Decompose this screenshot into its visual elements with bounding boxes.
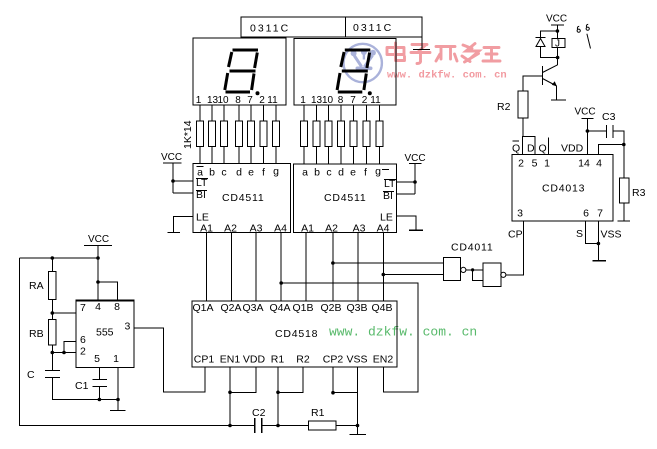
- coupling wires U5A to U5B: [466, 270, 483, 280]
- VCC rail wire to RA: [20, 257, 98, 259]
- svg-text:Q3A: Q3A: [242, 302, 263, 314]
- timer U1 555: [76, 300, 134, 368]
- wire collector node: [557, 58, 559, 66]
- junction: [471, 268, 474, 271]
- svg-text:1: 1: [544, 158, 550, 170]
- svg-text:R1: R1: [271, 354, 285, 366]
- svg-text:R2: R2: [497, 101, 511, 113]
- wire RA to RB: [51, 300, 53, 320]
- svg-text:f: f: [262, 167, 265, 179]
- svg-text:7: 7: [247, 95, 253, 106]
- ground below pin1: [110, 400, 126, 411]
- svg-text:CD4511: CD4511: [324, 192, 367, 204]
- junction: [556, 56, 560, 60]
- capacitor C3: [602, 111, 616, 138]
- wire C3 to pin4 node: [613, 131, 624, 145]
- watermark green url text: [329, 325, 477, 340]
- VCC symbol above CD4013: [575, 107, 596, 155]
- svg-text:3: 3: [125, 321, 131, 333]
- 555 pin 8 loop wire: [98, 282, 117, 300]
- svg-text:e: e: [350, 167, 356, 179]
- junction pin2: [51, 351, 55, 355]
- svg-text:C3: C3: [602, 111, 616, 123]
- junction pin6/pin2: [62, 351, 66, 355]
- 7-segment display DS1: [193, 38, 286, 106]
- resistor R1: [309, 407, 337, 430]
- 555 pin 6 jog wire: [64, 342, 76, 353]
- digit 8 of DS1: [225, 50, 260, 95]
- svg-text:8: 8: [114, 301, 120, 313]
- junction pin8/pin4: [96, 280, 100, 284]
- svg-text:6: 6: [583, 208, 589, 220]
- svg-text:S: S: [576, 228, 583, 240]
- svg-text:e: e: [248, 167, 254, 179]
- svg-text:1K*14: 1K*14: [182, 120, 194, 149]
- wire to C3: [587, 130, 606, 132]
- junction: [597, 242, 601, 246]
- wire VCC to LT pin of U3: [397, 181, 416, 183]
- pin2/pin5 tie bracket (Qbar to D): [522, 136, 535, 154]
- svg-text:VCC: VCC: [88, 234, 109, 245]
- relay coil J: [552, 39, 565, 58]
- wire U3.A3 to U4.Q3B: [357, 233, 359, 302]
- wire LE of U3 to ground: [397, 216, 417, 230]
- relay contact switch: [577, 24, 590, 48]
- svg-text:Q: Q: [512, 143, 520, 155]
- R3 ground bar: [618, 220, 631, 222]
- svg-text:5: 5: [532, 158, 538, 170]
- wire R1 node to reset rail: [277, 392, 279, 425]
- wire to 555 pin 7: [52, 312, 76, 314]
- wire LE of U2 to ground: [174, 217, 194, 233]
- svg-text:b: b: [314, 167, 320, 179]
- svg-text:8: 8: [235, 95, 241, 106]
- counter U4 CD4518: [192, 301, 397, 367]
- transistor Q1: [543, 65, 558, 86]
- R1-R2 tie bracket: [278, 367, 303, 392]
- svg-text:EN1: EN1: [220, 354, 241, 366]
- resistor network RN1 (1K*14): [196, 121, 279, 147]
- svg-text:5: 5: [94, 353, 100, 365]
- svg-text:2: 2: [259, 95, 265, 106]
- capacitor C2: [252, 407, 266, 433]
- svg-text:Q3B: Q3B: [346, 302, 367, 314]
- wire R1 to ground node: [336, 425, 358, 427]
- svg-text:d: d: [236, 167, 242, 179]
- resistor RB: [29, 320, 56, 346]
- svg-text:10: 10: [322, 95, 334, 106]
- svg-text:A1: A1: [301, 223, 314, 235]
- svg-text:1: 1: [300, 95, 306, 106]
- svg-text:Q4B: Q4B: [371, 302, 392, 314]
- connector box 0311C (common-anode header for both displays): [241, 17, 422, 37]
- svg-text:Q2B: Q2B: [320, 302, 341, 314]
- VCC symbol above relay: [546, 14, 567, 39]
- wire U3.A1 to U4.Q1B: [305, 233, 307, 302]
- S pin 6 wire: [586, 221, 599, 244]
- svg-text:CD4511: CD4511: [222, 192, 265, 204]
- wire U2.A3 to U4.Q3A: [255, 233, 257, 302]
- svg-text:4: 4: [596, 158, 602, 170]
- svg-text:A3: A3: [353, 223, 366, 235]
- flyback diode D1: [536, 38, 546, 47]
- wire EN1 node to VCC rail: [229, 392, 231, 425]
- svg-text:CD4011: CD4011: [451, 242, 494, 254]
- CP label: [508, 229, 523, 241]
- wire to 555 pin 2: [52, 352, 76, 354]
- junction at 555 pin4 line: [96, 256, 100, 260]
- junction at RA top: [51, 256, 55, 260]
- junction ground node: [356, 424, 360, 428]
- wire R3 to bottom bar: [623, 203, 625, 221]
- junction on rail: [228, 424, 232, 428]
- svg-text:Q: Q: [539, 143, 547, 155]
- wire VSS to ground rail: [357, 393, 359, 426]
- wire VCC to BI pin of U3: [397, 193, 416, 195]
- svg-text:EN2: EN2: [373, 354, 394, 366]
- wire VCC node to diode: [541, 31, 558, 38]
- svg-text:0311C: 0311C: [353, 22, 393, 34]
- junction on reset rail: [276, 424, 280, 428]
- decoder U2 CD4511: [193, 164, 291, 235]
- resistor RA: [29, 258, 56, 300]
- svg-text:3: 3: [517, 208, 523, 220]
- svg-text:Q1A: Q1A: [192, 302, 213, 314]
- svg-text:a: a: [302, 167, 308, 179]
- capacitor C: [27, 369, 60, 381]
- wires DS1 pins to resistor network: [200, 105, 276, 121]
- junction pin1: [116, 398, 120, 402]
- wires RN2 to CD4511 U3: [304, 147, 380, 165]
- anode terminal bar: [413, 49, 430, 51]
- CP2-VSS tie bracket: [333, 367, 358, 393]
- svg-text:www. dzkfw. com. cn: www. dzkfw. com. cn: [387, 70, 507, 82]
- svg-text:Q1B: Q1B: [292, 302, 313, 314]
- feedback wire Q4A to EN2: [281, 283, 418, 392]
- junction for C3: [586, 129, 590, 133]
- VSS label: [601, 229, 622, 241]
- svg-text:b: b: [209, 167, 215, 179]
- svg-text:6: 6: [80, 334, 86, 346]
- wire U3.A4 to U4.Q4B: [382, 233, 384, 302]
- svg-text:VCC: VCC: [161, 152, 182, 163]
- wire VCC to BI pin of U2: [173, 192, 193, 194]
- capacitor C1: [75, 368, 107, 400]
- svg-text:0311C: 0311C: [250, 23, 290, 35]
- svg-text:www. dzkfw. com. cn: www. dzkfw. com. cn: [329, 325, 477, 340]
- wire C to common rail: [52, 378, 118, 400]
- VCC symbol left of U2: [161, 152, 182, 193]
- junction on Q4A: [279, 281, 283, 285]
- NAND gate U5B: [483, 263, 506, 287]
- wire diode to collector node: [541, 47, 558, 58]
- flip-flop U6 CD4013: [512, 141, 613, 221]
- wire VCC to LT pin of U2: [173, 180, 193, 182]
- svg-text:7: 7: [80, 302, 86, 314]
- ground below node: [350, 426, 367, 435]
- wire RB to C: [51, 345, 53, 371]
- wire R2 bottom to pin2/5 bracket: [522, 118, 524, 136]
- wire node to R3: [623, 145, 625, 179]
- svg-text:VCC: VCC: [575, 107, 596, 118]
- svg-text:c: c: [326, 167, 331, 179]
- junction C1 bottom: [98, 398, 102, 402]
- svg-text:D: D: [527, 143, 535, 155]
- pin 7 wire to ground: [597, 221, 599, 261]
- svg-text:11: 11: [267, 95, 278, 106]
- decoder U3 CD4511: [294, 164, 397, 235]
- svg-text:8: 8: [338, 95, 344, 106]
- junction EN1: [228, 391, 232, 395]
- NAND gate U5A: [444, 258, 466, 281]
- svg-text:R1: R1: [311, 407, 325, 419]
- svg-text:RA: RA: [29, 280, 44, 292]
- wire U5B output to CD4013 CP: [506, 221, 523, 275]
- label 1K*14: [182, 120, 194, 149]
- wire emitter to ground: [556, 86, 558, 100]
- svg-text:2: 2: [362, 95, 368, 106]
- watermark red brush text: [387, 43, 500, 64]
- pin 4 wire: [599, 145, 624, 155]
- svg-text:c: c: [221, 167, 226, 179]
- svg-text:g: g: [273, 166, 279, 178]
- svg-text:CD4518: CD4518: [275, 328, 318, 340]
- ground bar below emitter: [551, 99, 566, 101]
- svg-text:555: 555: [96, 327, 114, 339]
- svg-text:VCC: VCC: [546, 14, 567, 25]
- VCC symbol above 555: [84, 234, 112, 300]
- svg-text:CD4013: CD4013: [542, 183, 585, 195]
- label CD4011: [451, 242, 494, 254]
- svg-text:VCC: VCC: [405, 153, 426, 164]
- resistor network RN2: [300, 121, 383, 147]
- svg-text:VSS: VSS: [346, 354, 367, 366]
- wire U2.A2 to U4.Q2A: [230, 233, 232, 302]
- wire 555 pin3 to CP1: [134, 328, 205, 392]
- wire U2.A4 to U4.Q4A: [280, 233, 282, 302]
- svg-text:10: 10: [217, 95, 229, 106]
- svg-text:Q4A: Q4A: [269, 302, 290, 314]
- svg-text:C1: C1: [75, 380, 89, 392]
- svg-text:VSS: VSS: [601, 229, 622, 241]
- wire C2 to R1: [262, 425, 309, 427]
- watermark pink url text: [387, 70, 507, 82]
- junction on Q4B: [382, 273, 386, 277]
- junction at relay top: [556, 29, 560, 33]
- resistor R2: [497, 91, 528, 118]
- svg-text:f: f: [364, 167, 367, 179]
- svg-text:7: 7: [597, 208, 603, 220]
- svg-text:R2: R2: [296, 354, 310, 366]
- svg-text:RB: RB: [29, 328, 44, 340]
- junction R1: [276, 391, 280, 395]
- resistor R3: [620, 178, 646, 203]
- svg-text:d: d: [338, 167, 344, 179]
- 555 pin 1 wire: [117, 368, 119, 400]
- ground bar below U3 LE: [409, 229, 423, 231]
- svg-text:2: 2: [518, 158, 524, 170]
- digit 8 of DS2: [337, 50, 372, 95]
- svg-text:1: 1: [113, 353, 119, 365]
- wire Q4B line to NAND gate input 2: [383, 274, 443, 276]
- svg-text:C2: C2: [252, 407, 266, 419]
- junction CP2: [331, 391, 335, 395]
- svg-text:1: 1: [196, 95, 202, 106]
- svg-text:11: 11: [370, 95, 381, 106]
- svg-text:VDD: VDD: [561, 143, 584, 155]
- pin1 Q stub: [548, 138, 550, 155]
- svg-text:A4: A4: [274, 223, 287, 235]
- wire Q2B line to NAND gate input 1: [333, 262, 444, 264]
- wires RN1 to CD4511 U2: [200, 147, 276, 164]
- svg-text:7: 7: [350, 95, 356, 106]
- watermark logo circle: [344, 44, 382, 82]
- svg-text:A2: A2: [224, 223, 237, 235]
- 7-segment display DS2: [294, 39, 396, 107]
- svg-text:CP2: CP2: [323, 354, 344, 366]
- wire R2 to transistor base: [523, 76, 543, 91]
- svg-text:A2: A2: [325, 223, 338, 235]
- svg-text:CP1: CP1: [194, 354, 215, 366]
- junction: [171, 179, 175, 183]
- EN1-VDD tie bracket: [230, 367, 256, 392]
- svg-text:C: C: [27, 369, 35, 381]
- left VCC loop wire down and along bottom: [20, 258, 255, 426]
- junction: [622, 143, 626, 147]
- ground bar below pin7: [593, 260, 607, 262]
- svg-text:4: 4: [95, 301, 101, 313]
- svg-text:g: g: [375, 166, 381, 178]
- wires DS2 pins to resistor network: [304, 105, 380, 121]
- wire from 0311C box to anode terminal: [421, 37, 423, 50]
- junction on Q2B: [331, 261, 335, 265]
- VCC symbol right of U3: [405, 153, 426, 194]
- S label: [576, 228, 583, 240]
- svg-text:VDD: VDD: [243, 354, 266, 366]
- wire U2.A1 to U4.Q1A: [206, 233, 208, 302]
- svg-text:Q2A: Q2A: [220, 302, 241, 314]
- junction pin7: [51, 311, 55, 315]
- svg-text:CP: CP: [508, 229, 523, 241]
- ground bar below U2 LE: [168, 232, 181, 234]
- svg-text:2: 2: [80, 346, 86, 358]
- svg-text:14: 14: [578, 158, 590, 170]
- svg-text:13: 13: [311, 95, 323, 106]
- junction: [413, 180, 417, 184]
- svg-text:R3: R3: [632, 187, 646, 199]
- wire U3.A2 to U4.Q2B: [332, 233, 334, 302]
